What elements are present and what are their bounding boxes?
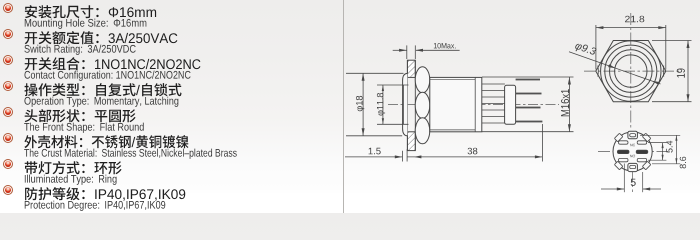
tiny NC/NO marks [630,144,635,147]
dimension phi11.8 [377,84,409,86]
dimension 5.4 [648,142,666,144]
spec contact configuration (Chinese) [24,55,202,73]
phi9.3 leader [569,52,661,84]
dimension 10Max panel thickness [393,49,407,51]
dimension 38 body length [407,156,542,158]
spec contact configuration (English) [24,68,192,82]
spec front shape (Chinese) [24,107,138,125]
dimension M16x1 thread [482,76,574,78]
bullet 2 [3,29,13,39]
spec protection degree (English) [24,198,167,212]
hex view center lines [584,70,679,72]
top key tab [628,131,638,139]
spec illuminated type (English) [24,172,119,186]
connector pins [516,79,540,81]
spec mounting hole size (Chinese) [24,3,159,21]
hex nut outline [596,41,666,102]
terminal leads bundle [482,83,505,85]
dimension 8.6 [640,134,680,136]
bullet 8 [3,185,13,195]
threaded body M16 [430,77,482,131]
dimension 21.8 across corners [595,25,597,70]
spec operation type (Chinese) [24,81,183,99]
terminal holder block [505,85,516,124]
bezel flange head [403,73,408,135]
diagonal lugs [642,133,650,141]
bottom view center lines [598,151,668,153]
terminal slots [619,141,629,144]
bullet 3 [3,55,13,65]
bullet 6 [3,133,13,143]
side view center axis [388,104,559,106]
spec illuminated type (Chinese) [24,159,124,177]
bullet 5 [3,107,13,117]
dimension 1.5 flange [345,156,402,158]
dimension phi18 [346,72,404,74]
spec mounting hole size (English) [24,16,149,30]
bullet 7 [3,159,13,169]
hex nut side profile (3 lobes) [415,67,430,93]
drawing frame line [343,0,345,213]
spec operation type (English) [24,94,180,108]
bullet 4 [3,81,13,91]
spec crust material (English) [24,146,239,160]
spec protection degree (Chinese) [24,185,187,203]
dimension 5 pin spacing [623,164,625,193]
concentric circles [601,41,661,101]
bottom view outline [613,132,652,171]
dimension 19 across flats [652,40,692,42]
spec switch rating (Chinese) [24,29,179,47]
spec front shape (English) [24,120,146,134]
button face edge [402,85,404,124]
spec crust material (Chinese) [24,133,190,151]
spec switch rating (English) [24,42,138,56]
nut chamfer arcs [597,66,600,77]
bottom tab [628,163,638,171]
bullet 1 [3,3,13,13]
